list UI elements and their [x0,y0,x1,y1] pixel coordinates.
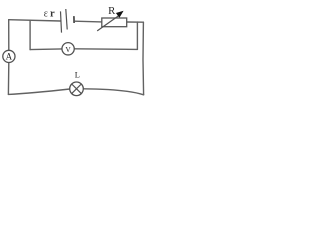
resistor R rectangle [102,18,127,27]
wire bottom-left segment [8,89,69,94]
ammeter circle [3,50,15,62]
svg-text:V: V [65,45,71,54]
lamp cross line 2 [72,84,82,94]
svg-text:A: A [6,52,13,62]
resistor arrow shaft [97,15,120,31]
battery plate bar B [66,9,67,30]
wire voltmeter branch left horizontal [30,48,62,51]
lamp cross line 1 [72,84,82,94]
wire voltmeter branch right horizontal [74,48,137,51]
wire left upper segment [8,20,10,51]
resistor arrowhead [116,11,124,18]
wire voltmeter branch left vertical [29,20,31,49]
svg-text:R: R [108,5,116,17]
battery cell bars [61,9,75,33]
lamp circle [70,82,84,96]
svg-text:r: r [50,9,55,20]
battery plate bar A [61,11,62,32]
svg-text:ε: ε [44,9,48,20]
svg-text:L: L [75,70,80,79]
wire resistor to top-right corner [127,21,144,23]
battery plate bar C short thick [73,16,75,23]
wire bottom-right segment [83,89,143,95]
wire voltmeter branch right vertical [136,22,138,49]
voltmeter U circle [62,43,74,55]
wire left lower segment [7,63,9,95]
wire right side [142,22,145,95]
wire battery to resistor [75,20,102,23]
wire top-left segment [9,20,61,21]
